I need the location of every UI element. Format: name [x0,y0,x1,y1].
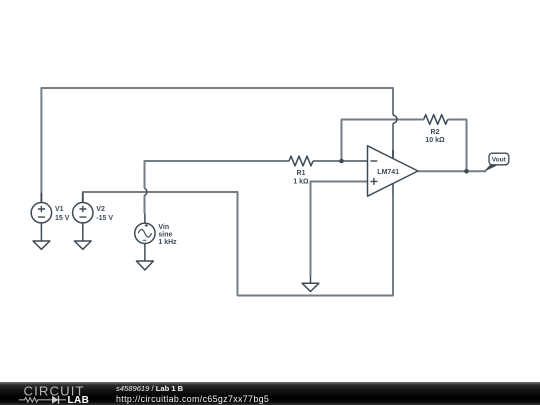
logo resistor squiggle [19,398,43,403]
wire feedback node A up and to R2 [342,120,424,162]
wire V+ pin below hop [392,123,394,157]
wire op-amp output to Vout [418,170,486,172]
svg-text:R1: R1 [297,170,306,177]
wire Vin vertical above hop and to R1 [145,161,290,188]
resistor R1 [289,156,313,166]
svg-text:R2: R2 [431,129,440,136]
footer bar [0,382,540,405]
Vout flag tail [484,165,499,172]
ground at non-inverting input [302,275,319,292]
resistor R2 [424,115,448,125]
ground below V1 [33,233,50,250]
junction node A dot [339,159,344,164]
svg-text:LAB: LAB [68,395,90,405]
footer line 2: url [116,394,269,404]
svg-text:sine: sine [158,232,172,239]
wire V2 negative rail [83,192,393,296]
wire R2 to output node B [448,120,467,172]
hop where V+ wire crosses feedback wire [393,115,397,123]
voltage source V2 [73,193,93,233]
wire R1 to op-amp inverting input [313,160,368,162]
svg-text:10 kΩ: 10 kΩ [425,137,445,144]
logo diode [43,399,67,401]
svg-text:V1: V1 [55,206,64,213]
svg-text:15 V: 15 V [55,215,70,222]
wire V1 positive rail to op-amp V+ [41,88,393,203]
voltage source V1 [31,193,51,233]
Vout flag [489,153,509,165]
svg-text:1 kΩ: 1 kΩ [293,178,309,185]
svg-text:Vout: Vout [492,157,507,164]
ground below Vin [136,253,153,270]
svg-text:1 kHz: 1 kHz [158,239,177,246]
svg-text:-15 V: -15 V [96,215,113,222]
sine source Vin [135,213,155,253]
svg-text:Vin: Vin [158,224,169,231]
ground below V2 [74,233,91,250]
wire op-amp non-inverting input to ground drop [311,182,368,276]
hop where Vin wire crosses V2 rail [145,188,147,195]
op-amp U1 LM741 [368,146,419,196]
svg-text:LM741: LM741 [377,169,399,176]
CircuitLab logo [0,382,100,405]
svg-text:V2: V2 [96,206,105,213]
footer line 1: s4589619 / Lab 1 B [116,384,183,393]
wire Vin top to node A below hop [144,195,146,213]
junction node B dot [464,169,469,174]
